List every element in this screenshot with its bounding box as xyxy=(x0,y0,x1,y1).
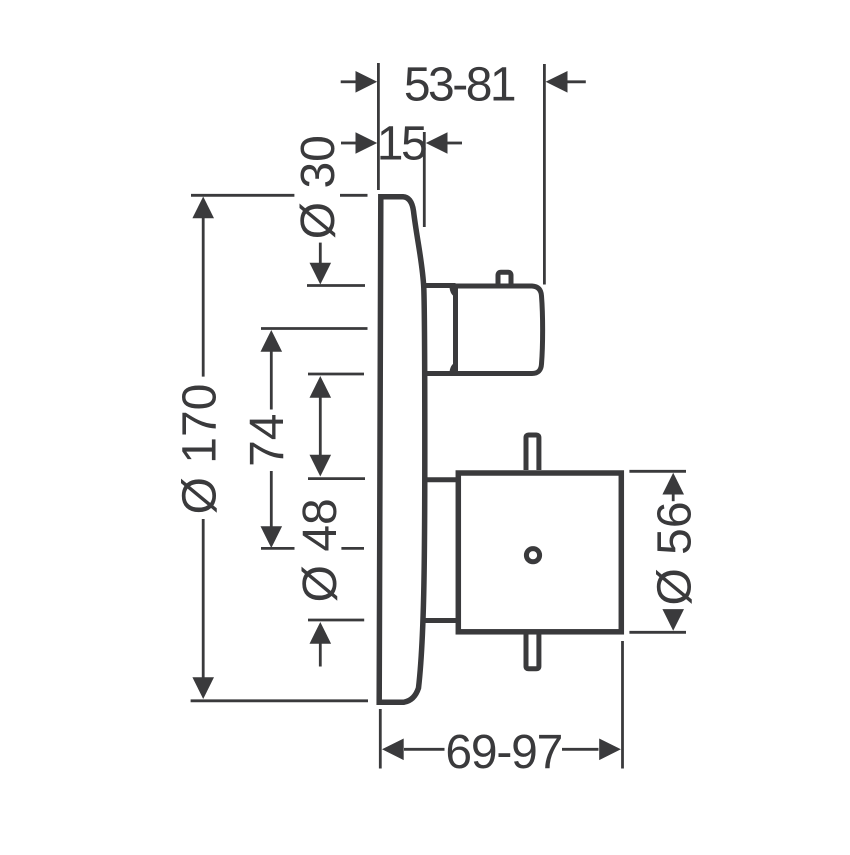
handle fillet ear top xyxy=(450,287,457,298)
dimension 69-97 left arrow xyxy=(404,748,445,751)
valve top pin xyxy=(526,435,539,470)
dimension O170 line upper segment with arrow xyxy=(202,218,205,377)
escutcheon plate outline (side view) xyxy=(379,197,425,702)
dimension 15 left arrow xyxy=(341,142,356,145)
valve collar top line xyxy=(425,477,458,482)
svg-text:74: 74 xyxy=(241,414,294,467)
handle top button xyxy=(498,272,511,286)
handle fillet ear bottom xyxy=(450,362,457,373)
dimension 53-81 left extension line xyxy=(377,63,380,190)
valve collar bottom line xyxy=(423,618,458,623)
dimension O48 lower arrow xyxy=(319,644,322,667)
dimension O56 lower arrow xyxy=(662,609,684,631)
svg-text:15: 15 xyxy=(377,118,426,171)
valve box outline xyxy=(458,473,621,632)
dimension 69-97 right extension line xyxy=(621,641,624,769)
dimension O170 bottom extension line xyxy=(191,699,368,702)
handle collar top line xyxy=(423,283,456,288)
svg-text:Ø 56: Ø 56 xyxy=(649,501,702,605)
dimension 53-81 right arrow xyxy=(567,80,586,83)
valve center hole xyxy=(526,549,539,562)
dimension O48 upper tick (collar top extension) xyxy=(308,477,365,480)
dimension 69-97 right arrow xyxy=(562,748,599,751)
dimension 15 right arrow xyxy=(448,142,463,145)
dimension O30 lower arrow and O48 upper arrow shared tail xyxy=(319,397,322,456)
dimension O170 line lower segment with arrow xyxy=(202,519,205,678)
dimension O48 lower tick (collar bottom extension) xyxy=(308,619,364,622)
dimension O56 bottom tick (box bottom extension) xyxy=(629,631,686,634)
dimension 15 right extension line xyxy=(423,132,426,227)
svg-text:Ø 48: Ø 48 xyxy=(294,498,347,602)
dimension O56 top tick (box top extension) xyxy=(629,470,686,473)
dimension 74 lower tick (box centerline) xyxy=(261,547,295,550)
handle collar bottom line xyxy=(424,371,456,376)
valve bottom pin xyxy=(526,634,539,669)
dimension O30 upper tick (handle top extension) xyxy=(307,284,365,287)
svg-text:Ø 30: Ø 30 xyxy=(292,135,345,239)
svg-text:53-81: 53-81 xyxy=(404,59,515,112)
dimension O48 upper arrow xyxy=(310,455,332,477)
dimension O30 upper arrow xyxy=(319,243,322,264)
handle body outline xyxy=(456,286,543,374)
dimension 74 line lower segment with arrow xyxy=(270,471,273,527)
svg-text:69-97: 69-97 xyxy=(445,726,562,779)
dimension 53-81 left arrow xyxy=(341,80,357,83)
dimension 74 line upper segment with arrow xyxy=(270,351,273,410)
dimension 53-81 right extension line xyxy=(543,64,546,285)
dimension O30 lower tick (handle bottom extension) xyxy=(308,373,364,376)
dimension 69-97 left extension line xyxy=(379,709,382,769)
dimension O170 top extension line xyxy=(191,194,294,197)
dimension 74 upper tick (handle centerline) xyxy=(261,327,368,330)
svg-text:Ø 170: Ø 170 xyxy=(174,384,227,515)
dimension O56 upper arrow xyxy=(672,494,675,502)
